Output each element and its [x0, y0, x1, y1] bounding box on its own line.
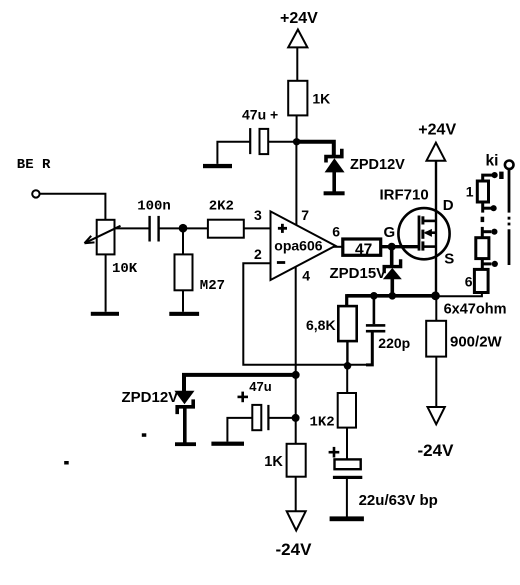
svg-text:IRF710: IRF710	[380, 186, 429, 203]
svg-text:ZPD12V: ZPD12V	[122, 389, 179, 406]
wire corner down to ZPD12V (thick)	[182, 375, 186, 391]
tap 4 contact dot	[492, 261, 498, 267]
ground (M27)	[169, 312, 199, 316]
capacitor 22u negative plate	[333, 476, 362, 479]
zener ZPD12V (bottom) bar	[177, 399, 193, 414]
wire ground to 47u bottom left plate	[227, 418, 252, 442]
resistor 47 (gate stopper) box	[343, 239, 381, 255]
svg-text:D: D	[443, 197, 454, 214]
transistor drain connector	[423, 220, 436, 223]
transistor channel dashes	[421, 216, 424, 250]
zener ZPD12V (bottom) cathode triangle	[174, 391, 194, 405]
svg-text:10K: 10K	[112, 261, 138, 277]
ground (47u bottom)	[211, 442, 244, 446]
svg-text:220p: 220p	[378, 335, 410, 351]
ground (top 47u)	[203, 164, 232, 168]
svg-text:47: 47	[355, 241, 372, 258]
capacitor 47u bottom, positive plate	[252, 405, 261, 430]
tap 4 wire	[482, 262, 491, 265]
wire 47u to node V+	[268, 141, 293, 143]
resistor 6,8K	[338, 306, 356, 341]
wire source rail (thick)	[347, 294, 436, 298]
potentiometer 10K body	[97, 220, 115, 255]
potentiometer wiper arrow	[85, 226, 121, 243]
resistor 1K (bottom)	[287, 444, 306, 477]
capacitor 47u top, positive plate	[260, 129, 269, 154]
wire rail to resistor ladder bottom	[436, 293, 482, 297]
resistor ladder mid	[476, 238, 489, 259]
svg-text:ki: ki	[486, 152, 499, 169]
ground bar below ZPD12V (top)	[324, 191, 345, 195]
junction ZPD15V on rail	[389, 292, 397, 300]
svg-text:4: 4	[302, 267, 310, 283]
wire V- node to ZPD12V bottom (thick)	[182, 373, 296, 377]
capacitor 47u bottom, negative plate	[267, 405, 269, 430]
plus marking 22u	[329, 447, 340, 458]
zener ZPD15V anode triangle	[383, 268, 402, 279]
wire 2K2 to op-amp pin 3	[244, 227, 271, 229]
capacitor 220p plates	[366, 324, 385, 332]
svg-text:+24V: +24V	[280, 10, 318, 27]
tap 3 contact dot	[491, 229, 497, 235]
power +24V arrow (drain rail)	[427, 143, 446, 161]
transistor body arrow	[424, 229, 436, 237]
wire rail to 220p top	[373, 296, 376, 324]
wire pot wiper to 100n	[115, 227, 150, 229]
svg-text:3: 3	[254, 207, 262, 223]
wire M27 to ground	[182, 290, 184, 312]
ground (potentiometer)	[91, 312, 119, 316]
wire 1K bottom to node V+	[296, 115, 298, 141]
wire 1K bottom to -24V	[295, 477, 297, 512]
transistor gate plate	[418, 216, 421, 251]
resistor 900/2W	[426, 321, 446, 357]
svg-text:-24V: -24V	[276, 540, 313, 559]
tap 1 contact dot	[492, 172, 498, 178]
svg-text:6x47ohm: 6x47ohm	[444, 301, 507, 317]
junction source / 900 ohm on rail	[431, 291, 440, 300]
svg-text:S: S	[444, 251, 454, 268]
wire node V+ to zener ZPD12V (thick)	[297, 142, 334, 155]
wire zener to end bar	[332, 172, 336, 193]
power +24V arrow symbol	[288, 30, 307, 48]
wire ZPD15V to source rail (thick)	[390, 279, 394, 296]
wire ladder resumes	[481, 227, 484, 238]
plus marking 47u bottom	[238, 392, 249, 403]
svg-text:M27: M27	[200, 278, 225, 294]
tap 1 wire	[483, 175, 493, 181]
capacitor 22u positive plate	[335, 459, 361, 469]
capacitor 100n plates	[150, 216, 159, 242]
wire +24V to R 1K top	[296, 47, 298, 80]
capacitor 47u top, negative plate	[249, 128, 251, 154]
node A junction (100n/2K2/M27)	[179, 224, 188, 233]
svg-text:1: 1	[466, 183, 474, 199]
input terminal circle	[32, 190, 39, 197]
ground bar below ZPD12V (bottom)	[175, 442, 196, 446]
wire pot bottom to ground	[105, 254, 107, 311]
transistor source connector	[423, 245, 436, 248]
wire 6,8K bottom to feedback node	[346, 341, 348, 366]
svg-text:opa606: opa606	[274, 238, 322, 254]
junction 47u on pin4 line	[292, 414, 300, 422]
tap 2 contact dot	[491, 205, 497, 211]
wire node A to M27	[182, 228, 184, 254]
svg-text:1K2: 1K2	[310, 415, 335, 431]
zener ZPD12V (top) cathode bar	[326, 149, 342, 163]
svg-text:-24V: -24V	[418, 441, 455, 460]
wire R1 bottom lead	[481, 202, 484, 213]
wire rail to 6,8K top (thick corner)	[345, 294, 348, 306]
wire 47u bottom to pin4 line	[268, 417, 295, 419]
svg-text:47u: 47u	[249, 379, 271, 394]
wire rail to 900/2W	[435, 296, 437, 321]
svg-text:BE R: BE R	[17, 157, 51, 173]
op-amp plus input marking	[278, 224, 287, 233]
wire ground to 47u left plate	[217, 142, 250, 164]
wire node FB to 1K2	[346, 366, 348, 393]
resistor ladder R6	[474, 269, 488, 292]
wire input terminal to potentiometer	[40, 194, 106, 220]
node V+ junction	[293, 138, 300, 145]
svg-text:6,8K: 6,8K	[306, 317, 336, 333]
wire pin 7 to node V+	[295, 142, 297, 225]
wire 900/2W to -24V	[435, 357, 437, 407]
junction V- on pin4 line	[292, 371, 300, 379]
output terminal ki circle	[505, 161, 514, 170]
ground (22u)	[330, 516, 364, 521]
svg-text:900/2W: 900/2W	[450, 333, 503, 350]
selector line from ki (dashed)	[508, 169, 511, 265]
ladder continuation dash	[481, 217, 485, 222]
wire pin 4 down to negative rail branch	[295, 267, 297, 444]
tap 2 wire	[483, 207, 491, 210]
zener ZPD15V cathode bar	[384, 259, 400, 273]
selector wiper contact square	[499, 172, 503, 179]
svg-text:G: G	[384, 224, 396, 241]
svg-text:ZPD15V: ZPD15V	[330, 265, 387, 282]
zener ZPD12V (top) anode triangle	[325, 158, 345, 172]
svg-text:47u +: 47u +	[242, 106, 278, 122]
wire 22u to ground	[346, 479, 348, 517]
wire node G to zener ZPD15V (thick)	[390, 247, 394, 267]
svg-text:6: 6	[332, 223, 340, 239]
op-amp minus input marking	[277, 261, 285, 264]
svg-text:1K: 1K	[264, 454, 283, 470]
svg-text:ZPD12V: ZPD12V	[350, 157, 405, 173]
junction 220p top on rail	[370, 292, 378, 300]
op-amp U1 opa606 triangle	[271, 211, 336, 280]
power -24V arrow (source load)	[428, 407, 445, 424]
node G junction	[388, 243, 396, 251]
wire mid resistor bottom lead	[481, 259, 484, 270]
wire ZPD12V to end bar (thick)	[183, 407, 187, 443]
resistor 1K2	[338, 393, 356, 428]
wire 1K2 to 22u cap	[346, 428, 348, 460]
svg-text:1K: 1K	[312, 91, 330, 107]
resistor 1K (top)	[288, 81, 307, 116]
wire pin 2 feedback loop	[243, 263, 372, 365]
wire 220p bottom to feedback node (thick)	[366, 332, 372, 365]
wire drain-source vertical (D to S)	[435, 161, 437, 296]
resistor M27	[175, 254, 193, 290]
svg-text:+24V: +24V	[418, 121, 456, 138]
wire op-amp output to resistor 47	[333, 246, 343, 248]
power -24V arrow (op-amp rail)	[287, 511, 306, 530]
svg-text:6: 6	[465, 273, 473, 289]
wire 47 to gate (thick)	[381, 245, 419, 248]
svg-text:100n: 100n	[137, 198, 171, 214]
node FB junction	[344, 362, 352, 370]
wire 100n to 2K2	[159, 227, 208, 229]
svg-text:2K2: 2K2	[209, 198, 234, 214]
resistor ladder R1	[477, 181, 488, 202]
tap 3 wire	[482, 230, 491, 233]
svg-text:22u/63V bp: 22u/63V bp	[359, 492, 438, 509]
svg-text:2: 2	[254, 246, 262, 262]
resistor 2K2	[208, 220, 244, 238]
stray mark dot (bottom left)	[64, 461, 69, 465]
stray mark dot	[142, 433, 147, 437]
transistor Q1 IRF710 body circle	[398, 208, 449, 259]
svg-text:7: 7	[301, 207, 309, 223]
